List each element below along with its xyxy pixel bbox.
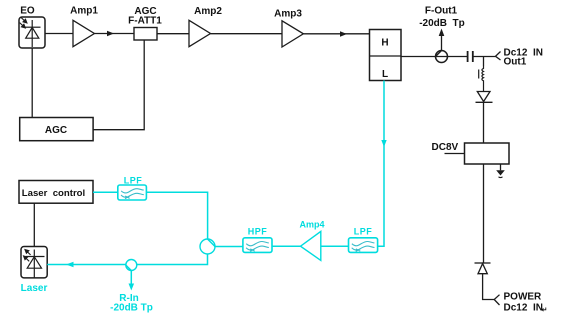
filter LPF2 box	[349, 238, 378, 253]
filter HPF box	[243, 238, 272, 253]
laser diode D-LD inside laser box	[26, 250, 45, 278]
arrowhead down on L wire	[381, 140, 386, 147]
wire DC8V label to box	[445, 153, 465, 155]
diode D1	[476, 92, 493, 103]
wire F-ATT1 to Amp2	[157, 33, 189, 35]
regulator DC8V box	[465, 143, 510, 164]
wire tap up to F-Out1	[441, 34, 443, 51]
Laser control box	[19, 181, 93, 204]
wire AGC to F-ATT1 control	[93, 41, 144, 130]
svg-text:-20dB Tp: -20dB Tp	[110, 303, 153, 314]
svg-text:-20dB Tp: -20dB Tp	[419, 18, 465, 29]
svg-text:Laser: Laser	[21, 283, 48, 294]
tap coupler R-In circle	[126, 260, 137, 271]
wire Amp1 to F-ATT1	[94, 33, 134, 35]
filter LPF1 waves	[121, 189, 144, 199]
svg-text:LPF: LPF	[354, 227, 373, 237]
svg-text:F-ATT1: F-ATT1	[128, 15, 162, 26]
svg-text:Amp1: Amp1	[70, 6, 98, 17]
svg-text:DC8V: DC8V	[432, 142, 459, 153]
cyan wire combiner to HPF	[215, 246, 243, 248]
cyan wire HPF to Amp4	[272, 245, 301, 247]
combiner chord	[208, 239, 216, 247]
laser module box	[21, 247, 47, 278]
connector Out1 chevron	[496, 52, 501, 61]
cyan wire diplexer L to LPF2	[378, 81, 384, 247]
wire Amp3 to diplexer	[303, 33, 369, 35]
AGC box	[20, 118, 93, 141]
arrowhead left into laser	[66, 262, 74, 268]
arrowhead on wire Amp3 to diplexer	[340, 31, 347, 37]
svg-text:LPF: LPF	[124, 176, 143, 186]
connector POWER chevron	[494, 295, 499, 305]
amplifier Amp4	[301, 231, 321, 260]
R-In tap chord	[126, 265, 132, 271]
light-in arrow 1	[21, 18, 27, 23]
ground at regulator	[496, 164, 505, 178]
svg-text:EO: EO	[20, 6, 35, 17]
filter HPF waves	[246, 241, 269, 251]
svg-text:F-Out1: F-Out1	[425, 6, 458, 17]
svg-text:Dc12 IN: Dc12 IN	[504, 303, 543, 314]
wire Laser control to Laser	[33, 203, 35, 246]
cyan wire Laser control to LPF1	[93, 191, 118, 193]
filter LPF2 waves	[352, 241, 375, 251]
attenuator F-ATT1 box	[134, 28, 157, 41]
node junction at bias feed	[483, 57, 485, 67]
tap coupler F-Out1 circle	[436, 51, 448, 63]
svg-text:↵: ↵	[542, 307, 548, 314]
filter LPF1 box	[118, 185, 147, 200]
tap chord	[436, 51, 442, 57]
svg-text:L: L	[382, 69, 388, 80]
svg-text:POWER: POWER	[504, 292, 543, 303]
wire diplexer to F-Out1 tap	[401, 56, 467, 58]
wire EO to Amp1	[45, 33, 73, 35]
wire regulator to diode D2	[483, 164, 485, 263]
combiner coupler circle	[200, 239, 215, 254]
svg-text:Laser control: Laser control	[22, 188, 85, 199]
arrowhead on wire Amp1 to F-ATT1	[107, 31, 114, 37]
amplifier Amp2	[189, 20, 211, 46]
wire R-In tap down	[130, 271, 132, 286]
wire D2 to POWER connector	[483, 274, 494, 300]
svg-text:Out1: Out1	[504, 57, 527, 68]
light-out arrow 1	[25, 250, 31, 255]
diplexer H/L box	[370, 30, 402, 81]
svg-text:AGC: AGC	[45, 125, 67, 136]
photodiode D-EO inside EO box	[25, 20, 41, 47]
svg-text:Amp2: Amp2	[194, 6, 222, 17]
cyan wire LPF1 to combiner	[146, 192, 207, 239]
cyan wire combiner to laser	[47, 254, 207, 265]
light-out arrow 2	[24, 256, 30, 261]
inductor L1 (ferrite bead)	[479, 66, 484, 92]
svg-text:Amp4: Amp4	[299, 220, 324, 230]
light-in arrow 2	[20, 23, 26, 28]
svg-text:HPF: HPF	[248, 227, 268, 237]
diode D2	[475, 263, 491, 274]
amplifier Amp3	[282, 21, 303, 47]
cyan wire Amp4 to LPF2	[321, 245, 349, 247]
detector module U1 (EO) box	[19, 17, 45, 48]
wire EO to AGC	[31, 48, 33, 118]
wire Amp2 to Amp3	[211, 33, 283, 35]
arrowhead R-In down	[129, 284, 135, 291]
svg-text:H: H	[381, 38, 388, 49]
wire capacitor to Out1 connector	[473, 56, 496, 58]
diplexer divider	[370, 55, 402, 57]
capacitor C1	[468, 51, 473, 62]
amplifier Amp1	[73, 20, 94, 46]
svg-text:Amp3: Amp3	[274, 9, 302, 20]
wire D1 to regulator	[483, 102, 485, 143]
arrowhead F-Out1 up	[439, 29, 445, 37]
